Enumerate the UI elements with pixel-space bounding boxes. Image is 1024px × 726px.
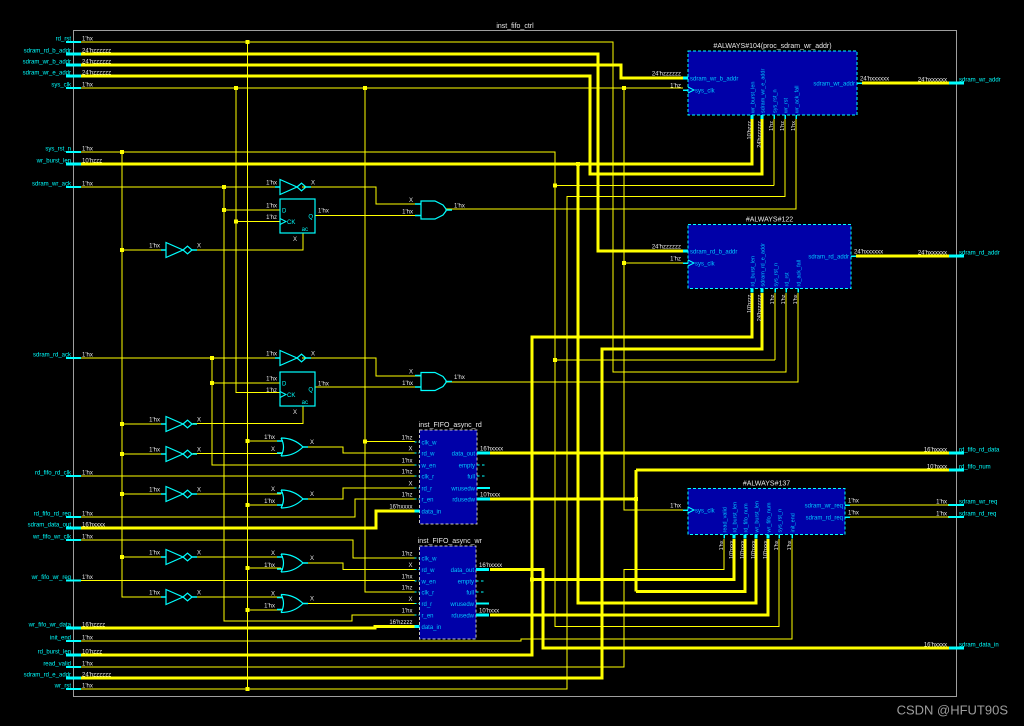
svg-text:1'hz: 1'hz xyxy=(769,121,775,131)
svg-text:sys_clk: sys_clk xyxy=(695,262,716,268)
svg-text:CK: CK xyxy=(287,393,295,399)
svg-text:#ALWAYS#122: #ALWAYS#122 xyxy=(746,217,793,224)
inverter U3 (~sdram_wr_ack) xyxy=(280,180,297,195)
pin sdram_rd_addr (right) of #ALWAYS#122 xyxy=(851,255,856,257)
wire rd_burst_len (bus): port to #ALWAYS#122 and #ALWAYS#137 bottom pins xyxy=(81,293,752,655)
svg-text:CK: CK xyxy=(287,220,295,226)
svg-text:wr_ack_fall: wr_ack_fall xyxy=(795,85,801,114)
svg-text:sdram_rd_addr: sdram_rd_addr xyxy=(959,251,1000,257)
svg-text:1'hx: 1'hx xyxy=(264,435,275,441)
svg-text:1'hx: 1'hx xyxy=(264,604,275,610)
svg-text:sdram_data_in: sdram_data_in xyxy=(959,643,999,649)
pin rd_ack_fall (bottom) of #ALWAYS#122 xyxy=(797,289,799,293)
svg-text:rd_ack_fall: rd_ack_fall xyxy=(797,260,803,287)
wire sys_clk branch x365 to FIFO clk pins xyxy=(365,88,415,592)
wire sdram_rd_b_addr (bus): port to #ALWAYS#122 left pin xyxy=(81,54,683,251)
svg-text:D: D xyxy=(282,382,287,388)
wire rd_fifo_rd_req: port to rd-FIFO r_en xyxy=(81,499,415,517)
svg-text:D: D xyxy=(282,209,287,215)
svg-text:rd_burst_len: rd_burst_len xyxy=(38,650,71,656)
svg-text:X: X xyxy=(408,563,412,569)
svg-text:10'hxxx: 10'hxxx xyxy=(479,609,499,615)
OR gate G1 (rd_w rst) xyxy=(281,438,303,456)
svg-text:X: X xyxy=(271,447,275,453)
svg-text:1'hx: 1'hx xyxy=(454,375,465,381)
wire sys_clk branch x236 to D-flip-flop clocks xyxy=(236,88,280,393)
svg-text:1'hz: 1'hz xyxy=(266,215,277,221)
pin rd_rst (bottom) of #ALWAYS#122 xyxy=(785,289,787,293)
svg-text:sdram_wr_e_addr: sdram_wr_e_addr xyxy=(23,71,71,77)
svg-text:X: X xyxy=(271,592,275,598)
wire inverter U2 output to DFF1 async clear xyxy=(193,233,303,250)
wire sys_clk: port to #ALWAYS#104, branches to DFF clocks, FIFO clocks, #ALWAYS#122, #ALWAYS#137 xyxy=(81,87,683,89)
svg-text:1'hx: 1'hx xyxy=(787,540,793,550)
wire read_valid: port to #ALWAYS#137 bottom pin xyxy=(81,539,724,667)
svg-text:10'hxxx: 10'hxxx xyxy=(763,540,769,559)
svg-text:1'hx: 1'hx xyxy=(266,377,277,383)
svg-text:wr_fifo_num: wr_fifo_num xyxy=(767,502,773,533)
svg-text:16'hxxxx: 16'hxxxx xyxy=(480,447,503,453)
process block #ALWAYS#137 xyxy=(688,489,845,535)
module boundary frame inst_fifo_ctrl xyxy=(74,31,957,697)
wire rd_ack_fall: AND gate A2 output to #ALWAYS#122 bottom pin xyxy=(446,293,798,382)
svg-text:1'hz: 1'hz xyxy=(402,586,413,592)
svg-text:sdram_wr_b_addr: sdram_wr_b_addr xyxy=(690,77,738,83)
svg-text:rd_w: rd_w xyxy=(422,452,436,458)
pin r_en (left) of inst_FIFO_async_wr xyxy=(415,614,420,616)
svg-text:wr_fifo_wr_clk: wr_fifo_wr_clk xyxy=(32,535,72,541)
svg-text:rd_r: rd_r xyxy=(422,487,433,493)
wire wr_rst: port to #ALWAYS#104 wr_rst bottom pin xyxy=(81,119,785,689)
svg-text:wr_burst_len: wr_burst_len xyxy=(36,159,71,165)
svg-text:X: X xyxy=(409,198,413,204)
pin wrusedw (right) of inst_FIFO_async_rd xyxy=(477,487,490,489)
svg-text:sdram_rd_req: sdram_rd_req xyxy=(959,512,996,518)
svg-text:16'hzzzz: 16'hzzzz xyxy=(389,620,412,626)
svg-text:X: X xyxy=(310,492,314,498)
pin wr_burst_len (bottom) of #ALWAYS#104 xyxy=(751,115,754,119)
pin full (right) of inst_FIFO_async_wr xyxy=(476,591,486,593)
svg-text:X: X xyxy=(197,418,201,424)
pin sdram_wr_addr (right) of #ALWAYS#104 xyxy=(857,82,862,84)
wire rd_rst: port to #ALWAYS#122 rd_rst pin, branch to reset column x247 xyxy=(81,42,786,372)
svg-text:rd_w: rd_w xyxy=(422,568,436,574)
svg-text:ac: ac xyxy=(302,400,308,406)
pin sys_clk (left) of #ALWAYS#137 xyxy=(683,509,688,511)
svg-text:data_in: data_in xyxy=(422,510,442,516)
svg-text:sys_clk: sys_clk xyxy=(695,89,716,95)
inverter U2 (~sys_rst_n) xyxy=(166,243,183,258)
pin full (right) of inst_FIFO_async_rd xyxy=(477,475,487,477)
svg-text:rd_fifo_num: rd_fifo_num xyxy=(744,503,750,532)
pin empty (right) of inst_FIFO_async_wr xyxy=(476,580,486,582)
svg-text:wr_burst_len: wr_burst_len xyxy=(751,82,757,115)
wire wr_fifo_wr_data (bus): port to wr-FIFO data_in xyxy=(81,627,415,629)
svg-text:sys_rst_n: sys_rst_n xyxy=(774,263,780,287)
svg-text:X: X xyxy=(197,488,201,494)
svg-text:1'hx: 1'hx xyxy=(149,448,160,454)
svg-text:24'hxxxxxx: 24'hxxxxxx xyxy=(860,77,889,83)
svg-text:inst_fifo_ctrl: inst_fifo_ctrl xyxy=(496,23,534,30)
svg-text:24'hzzzzzz: 24'hzzzzzz xyxy=(757,294,763,321)
inverter U7 xyxy=(166,487,183,502)
svg-text:1'hz: 1'hz xyxy=(780,121,786,131)
svg-text:rd_burst_len: rd_burst_len xyxy=(733,502,739,533)
inverter U8 (~sdram_rd_ack) xyxy=(280,351,297,366)
pin rd_burst_len (bottom) of #ALWAYS#122 xyxy=(751,289,754,293)
svg-text:16'hxxxx: 16'hxxxx xyxy=(479,563,502,569)
wire rd_fifo_num (bus): rd-FIFO rdusedw to output port and #ALWAYS#137 xyxy=(490,498,636,501)
pin wrusedw (right) of inst_FIFO_async_wr xyxy=(476,603,489,605)
pin empty (right) of inst_FIFO_async_rd xyxy=(477,464,487,466)
svg-text:sdram_rd_req: sdram_rd_req xyxy=(806,516,843,522)
pin read_valid (bottom) of #ALWAYS#137 xyxy=(723,535,725,539)
instance block inst_FIFO_async_wr xyxy=(420,546,477,639)
wire OR gate G1 output to rd-FIFO rd_w xyxy=(302,447,415,453)
svg-text:sdram_rd_e_addr: sdram_rd_e_addr xyxy=(761,243,767,287)
wire inverter U9 output to OR gate G3 upper input xyxy=(193,556,281,558)
svg-text:X: X xyxy=(408,447,412,453)
svg-text:#ALWAYS#104(proc_sdram_wr_addr: #ALWAYS#104(proc_sdram_wr_addr) xyxy=(713,43,831,50)
wire wr_fifo_num (bus): wr-FIFO rdusedw to #ALWAYS#137 bottom pin xyxy=(490,539,768,615)
wire sdram_wr_e_addr (bus): port to #ALWAYS#104 bottom pin xyxy=(81,76,762,174)
svg-text:1'hx: 1'hx xyxy=(402,459,413,465)
pin r_en (left) of inst_FIFO_async_rd xyxy=(415,498,420,500)
pin sdram_wr_req (right) of #ALWAYS#137 xyxy=(845,504,850,506)
wire sdram_rd_e_addr (bus): port to #ALWAYS#122 bottom pin xyxy=(81,293,762,678)
svg-text:1'hx: 1'hx xyxy=(318,209,329,215)
pin sys_clk (left) of #ALWAYS#122 xyxy=(683,262,688,264)
pin clk_r (left) of inst_FIFO_async_wr xyxy=(415,591,420,593)
pin rdusedw (right) of inst_FIFO_async_rd xyxy=(477,498,490,501)
wire DFF1.Q to AND gate A1 lower input xyxy=(315,215,421,217)
svg-text:ac: ac xyxy=(302,227,308,233)
svg-text:1'hz: 1'hz xyxy=(670,257,681,263)
svg-text:1'hx: 1'hx xyxy=(266,204,277,210)
wire sdram_rd_ack: port to inverter U8 input, branches to DFF2.D and rd-FIFO w_en xyxy=(81,357,280,359)
svg-text:X: X xyxy=(408,482,412,488)
pin sdram_wr_e_addr (bottom) of #ALWAYS#104 xyxy=(761,115,764,119)
svg-text:X: X xyxy=(197,448,201,454)
svg-text:sdram_wr_req: sdram_wr_req xyxy=(805,504,843,510)
svg-text:init_end: init_end xyxy=(791,513,797,532)
wire wr_burst_len (bus): port to #ALWAYS#104 bottom pin and #ALWAYS#137 bottom pin xyxy=(81,119,752,164)
svg-text:1'hz: 1'hz xyxy=(670,84,681,90)
svg-text:sdram_wr_addr: sdram_wr_addr xyxy=(813,82,855,88)
svg-text:24'hxxxxxx: 24'hxxxxxx xyxy=(854,250,883,256)
svg-text:24'hzzzzzz: 24'hzzzzzz xyxy=(652,245,681,251)
wire rd_fifo_rd_data (bus): rd-FIFO data_out to output port xyxy=(490,452,949,455)
svg-text:X: X xyxy=(311,181,315,187)
process block #ALWAYS#104 xyxy=(688,51,857,115)
wire sdram_data_out (bus): port to rd-FIFO data_in xyxy=(81,511,415,528)
pin sdram_rd_req (right) of #ALWAYS#137 xyxy=(845,516,850,518)
svg-text:wrusedw: wrusedw xyxy=(449,602,474,608)
svg-text:1'hz: 1'hz xyxy=(266,388,277,394)
inverter U10 xyxy=(166,590,183,605)
OR gate G3 (wr rd_w rst) xyxy=(281,554,303,572)
wire sys_rst_n branch x122 feeding inverter column xyxy=(122,152,166,597)
pin sys_clk (left) of #ALWAYS#104 xyxy=(683,89,688,91)
wire wr_ack_fall: AND gate A1 output to #ALWAYS#104 bottom pin xyxy=(446,119,796,209)
wire sdram_wr_req: #ALWAYS#137 output to port xyxy=(850,504,949,506)
inverter U5 (~sys_rst_n) xyxy=(166,417,183,432)
svg-text:1'hx: 1'hx xyxy=(402,609,413,615)
svg-text:X: X xyxy=(310,440,314,446)
svg-text:clk_r: clk_r xyxy=(422,475,435,481)
wire wr_fifo_wr_req: port to wr-FIFO w_en xyxy=(81,580,415,582)
svg-text:inst_FIFO_async_rd: inst_FIFO_async_rd xyxy=(419,422,482,429)
pin rd_r (left) of inst_FIFO_async_wr xyxy=(415,603,420,605)
svg-text:clk_w: clk_w xyxy=(422,441,438,447)
svg-text:sys_rst_n: sys_rst_n xyxy=(773,89,779,113)
pin init_end (bottom) of #ALWAYS#137 xyxy=(791,535,793,539)
pin clk_r (left) of inst_FIFO_async_rd xyxy=(415,475,420,477)
wire sdram_wr_addr (bus): #ALWAYS#104 output to port xyxy=(862,82,949,85)
svg-text:inst_FIFO_async_wr: inst_FIFO_async_wr xyxy=(418,538,483,545)
svg-text:sdram_wr_b_addr: sdram_wr_b_addr xyxy=(23,60,71,66)
svg-text:X: X xyxy=(310,556,314,562)
svg-text:1'hx: 1'hx xyxy=(402,210,413,216)
svg-text:1'hx: 1'hx xyxy=(719,540,725,550)
pin w_en (left) of inst_FIFO_async_rd xyxy=(415,464,420,466)
svg-text:rd_r: rd_r xyxy=(422,602,433,608)
svg-text:1'hz: 1'hz xyxy=(402,493,413,499)
pin w_en (left) of inst_FIFO_async_wr xyxy=(415,580,420,582)
wire OR gate G4 output to wr-FIFO rd_r xyxy=(302,603,415,605)
svg-text:X: X xyxy=(311,352,315,358)
pin rd_burst_len (bottom) of #ALWAYS#137 xyxy=(733,535,736,539)
pin clk_w (left) of inst_FIFO_async_wr xyxy=(415,557,420,559)
wire rst distribution column x247 feeding OR gate inputs xyxy=(247,42,249,689)
svg-text:w_en: w_en xyxy=(421,580,436,586)
svg-text:X: X xyxy=(293,410,297,416)
svg-text:1'hx: 1'hx xyxy=(402,381,413,387)
svg-text:full: full xyxy=(466,591,474,597)
svg-text:rd_burst_len: rd_burst_len xyxy=(751,256,757,287)
OR gate G4 (wr rd_r rst) xyxy=(281,595,303,613)
svg-text:1'hz: 1'hz xyxy=(402,552,413,558)
svg-text:X: X xyxy=(271,487,275,493)
instance block inst_FIFO_async_rd xyxy=(420,430,478,524)
wire wr_fifo_wr_clk: port to wr-FIFO clk_w xyxy=(81,540,415,558)
svg-text:10'hxxx: 10'hxxx xyxy=(480,493,500,499)
svg-text:X: X xyxy=(197,244,201,250)
D flip-flop DFF1 (wr_ack_d) xyxy=(280,199,315,233)
svg-text:rd_fifo_rd_req: rd_fifo_rd_req xyxy=(34,512,71,518)
svg-text:1'hx: 1'hx xyxy=(848,511,859,517)
wire inverter U10 output to OR gate G4 upper input xyxy=(193,596,281,598)
AND gate A2 (rd_ack_fall) xyxy=(421,373,446,391)
pin sys_rst_n (bottom) of #ALWAYS#137 xyxy=(778,535,780,539)
svg-text:1'hx: 1'hx xyxy=(264,563,275,569)
pin sdram_rd_b_addr (left) of #ALWAYS#122 xyxy=(683,250,688,253)
svg-text:24'hzzzzzz: 24'hzzzzzz xyxy=(757,121,763,148)
svg-text:wr_fifo_wr_req: wr_fifo_wr_req xyxy=(31,575,71,581)
pin sys_rst_n (bottom) of #ALWAYS#122 xyxy=(774,289,776,293)
pin clk_w (left) of inst_FIFO_async_rd xyxy=(415,441,420,443)
wire DFF2.Q to AND gate A2 lower input xyxy=(315,386,421,388)
svg-text:#ALWAYS#137: #ALWAYS#137 xyxy=(743,481,790,488)
pin data_in (left) of inst_FIFO_async_wr xyxy=(415,625,420,628)
svg-text:wr_burst_len: wr_burst_len xyxy=(755,501,761,534)
wire sdram_rd_req: #ALWAYS#137 output to port xyxy=(850,516,949,518)
pin rd_fifo_num (bottom) of #ALWAYS#137 xyxy=(744,535,747,539)
svg-text:1'hx: 1'hx xyxy=(149,488,160,494)
svg-text:sdram_wr_e_addr: sdram_wr_e_addr xyxy=(761,69,767,113)
svg-text:data_in: data_in xyxy=(422,625,442,631)
svg-text:1'hz: 1'hz xyxy=(781,294,787,304)
wire inverter U5 output to DFF2 async clear xyxy=(193,406,303,424)
pin sdram_rd_e_addr (bottom) of #ALWAYS#122 xyxy=(761,289,764,293)
svg-text:X: X xyxy=(197,551,201,557)
inverter U9 xyxy=(166,550,183,565)
pin wr_fifo_num (bottom) of #ALWAYS#137 xyxy=(767,535,770,539)
svg-text:sdram_rd_e_addr: sdram_rd_e_addr xyxy=(24,673,71,679)
svg-text:sdram_data_out: sdram_data_out xyxy=(28,523,72,529)
svg-text:read_valid: read_valid xyxy=(723,507,729,532)
process block #ALWAYS#122 xyxy=(688,225,851,289)
svg-text:1'hx: 1'hx xyxy=(318,382,329,388)
pin rd_r (left) of inst_FIFO_async_rd xyxy=(415,487,420,489)
svg-text:data_out: data_out xyxy=(451,568,475,574)
svg-text:sdram_wr_req: sdram_wr_req xyxy=(959,500,997,506)
wire sdram_rd_addr (bus): #ALWAYS#122 output to port xyxy=(856,255,949,258)
svg-text:wr_fifo_wr_data: wr_fifo_wr_data xyxy=(28,623,72,629)
svg-text:1'hx: 1'hx xyxy=(791,121,797,131)
svg-text:1'hx: 1'hx xyxy=(149,591,160,597)
svg-text:rdusedw: rdusedw xyxy=(451,614,474,620)
svg-text:w_en: w_en xyxy=(421,464,436,470)
svg-text:1'hx: 1'hx xyxy=(848,499,859,505)
svg-text:10'hzzz: 10'hzzz xyxy=(747,294,753,313)
svg-text:1'hx: 1'hx xyxy=(149,418,160,424)
inverter U6 xyxy=(166,447,183,462)
svg-text:1'hx: 1'hx xyxy=(774,540,780,550)
svg-text:rd_rst: rd_rst xyxy=(785,272,791,287)
wire inverter U6 output to OR gate G1 lower input xyxy=(193,453,281,455)
svg-text:1'hx: 1'hx xyxy=(266,352,277,358)
pin data_out (right) of inst_FIFO_async_wr xyxy=(476,568,489,571)
svg-text:X: X xyxy=(293,237,297,243)
svg-text:data_out: data_out xyxy=(452,452,476,458)
svg-text:sdram_rd_b_addr: sdram_rd_b_addr xyxy=(690,250,737,256)
wire OR gate G3 output to wr-FIFO rd_w xyxy=(302,563,415,570)
wire sys_rst_n: port to #ALWAYS#104/#122/#137 sys_rst_n pins, branch to inverter column x122 xyxy=(81,152,779,627)
svg-text:1'hx: 1'hx xyxy=(266,181,277,187)
svg-text:sdram_wr_ack: sdram_wr_ack xyxy=(32,182,72,188)
svg-text:sys_clk: sys_clk xyxy=(695,509,716,515)
wire rd_fifo_rd_clk: port to rd-FIFO clk_r xyxy=(81,475,415,477)
wire sdram_wr_ack: port to inverter U3 input, branches to DFF1.D and wr-FIFO r_en xyxy=(81,186,280,188)
wire sdram_wr_b_addr (bus): port to #ALWAYS#104 left pin xyxy=(81,65,683,78)
svg-text:1'hx: 1'hx xyxy=(402,575,413,581)
svg-text:Q: Q xyxy=(308,388,313,394)
svg-text:full: full xyxy=(467,475,475,481)
svg-text:10'hzzz: 10'hzzz xyxy=(747,121,753,140)
wire sys_clk branch x624 to #ALWAYS#122 and #ALWAYS#137 xyxy=(624,88,683,510)
pin wr_ack_fall (bottom) of #ALWAYS#104 xyxy=(795,115,797,119)
svg-text:rd_fifo_rd_data: rd_fifo_rd_data xyxy=(959,448,1000,454)
pin rd_w (left) of inst_FIFO_async_wr xyxy=(415,569,420,571)
svg-text:10'hxxx: 10'hxxx xyxy=(751,540,757,559)
D flip-flop DFF2 (rd_ack_d) xyxy=(280,372,315,406)
svg-text:1'hx: 1'hx xyxy=(149,244,160,250)
pin sys_rst_n (bottom) of #ALWAYS#104 xyxy=(773,115,775,119)
svg-text:X: X xyxy=(409,370,413,376)
svg-text:1'hz: 1'hz xyxy=(770,294,776,304)
svg-text:X: X xyxy=(271,551,275,557)
svg-text:1'hx: 1'hx xyxy=(149,551,160,557)
svg-text:r_en: r_en xyxy=(422,614,434,620)
wire inverter U8 output to AND gate A2 upper input xyxy=(302,358,421,376)
svg-text:1'hx: 1'hx xyxy=(793,294,799,304)
svg-text:1'hz: 1'hz xyxy=(402,436,413,442)
svg-text:X: X xyxy=(310,597,314,603)
svg-text:empty: empty xyxy=(459,464,475,470)
wire OR gate G2 output to rd-FIFO rd_r xyxy=(302,488,415,499)
pin rd_w (left) of inst_FIFO_async_rd xyxy=(415,452,420,454)
svg-text:CSDN @HFUT90S: CSDN @HFUT90S xyxy=(897,703,1009,718)
svg-text:1'hz: 1'hz xyxy=(402,470,413,476)
svg-text:X: X xyxy=(408,597,412,603)
svg-text:r_en: r_en xyxy=(422,498,434,504)
svg-text:sdram_rd_b_addr: sdram_rd_b_addr xyxy=(24,49,71,55)
svg-text:sdram_rd_addr: sdram_rd_addr xyxy=(808,255,849,261)
svg-text:wr_rst: wr_rst xyxy=(784,98,790,114)
svg-text:24'hzzzzzz: 24'hzzzzzz xyxy=(652,72,681,78)
svg-text:sys_rst_n: sys_rst_n xyxy=(778,509,784,533)
svg-text:X: X xyxy=(197,591,201,597)
AND gate A1 (wr_ack_fall) xyxy=(421,201,446,219)
wire init_end: port to #ALWAYS#137 bottom pin xyxy=(81,539,792,641)
svg-text:clk_w: clk_w xyxy=(422,557,438,563)
svg-text:10'hxxx: 10'hxxx xyxy=(740,540,746,559)
svg-text:10'hxxx: 10'hxxx xyxy=(729,540,735,559)
pin sdram_wr_b_addr (left) of #ALWAYS#104 xyxy=(683,77,688,80)
wire inverter U7 output to OR gate G2 upper input xyxy=(193,493,281,495)
svg-text:1'hx: 1'hx xyxy=(264,499,275,505)
svg-text:sdram_wr_addr: sdram_wr_addr xyxy=(959,78,1001,84)
svg-text:empty: empty xyxy=(458,580,474,586)
pin data_out (right) of inst_FIFO_async_rd xyxy=(477,452,490,455)
OR gate G2 (rd_r rst) xyxy=(281,490,303,508)
svg-text:1'hx: 1'hx xyxy=(454,204,465,210)
wire inverter U3 output to AND gate A1 upper input xyxy=(302,187,421,204)
pin rdusedw (right) of inst_FIFO_async_wr xyxy=(476,614,489,617)
svg-text:wrusedw: wrusedw xyxy=(450,487,475,493)
pin wr_burst_len (bottom) of #ALWAYS#137 xyxy=(755,535,758,539)
svg-text:16'hxxxx: 16'hxxxx xyxy=(389,505,412,511)
wire sdram_data_in (bus): wr-FIFO data_out to output port xyxy=(490,570,949,649)
svg-text:clk_r: clk_r xyxy=(422,591,435,597)
svg-text:Q: Q xyxy=(308,215,313,221)
svg-text:1'hx: 1'hx xyxy=(670,504,681,510)
pin data_in (left) of inst_FIFO_async_rd xyxy=(415,510,420,513)
svg-text:rdusedw: rdusedw xyxy=(452,498,475,504)
pin wr_rst (bottom) of #ALWAYS#104 xyxy=(784,115,786,119)
